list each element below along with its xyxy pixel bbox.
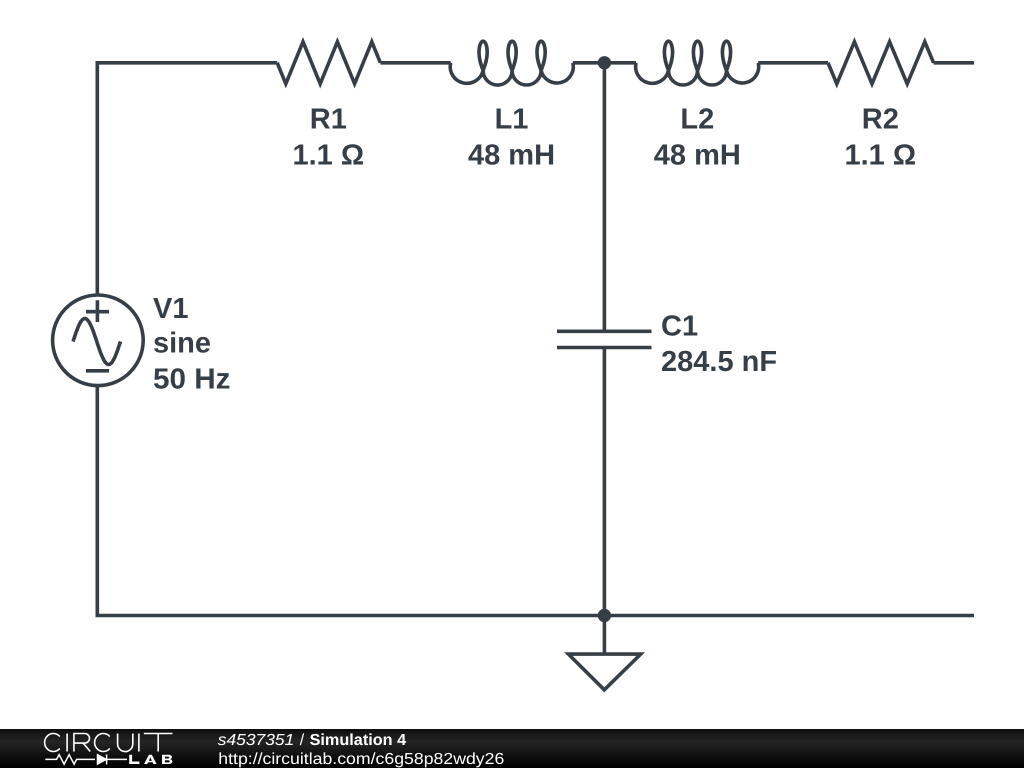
ground symbol — [568, 654, 640, 690]
resistor R1 — [277, 42, 380, 84]
voltage source V1 circle — [53, 295, 144, 386]
svg-text:1.1 Ω: 1.1 Ω — [292, 139, 364, 171]
capacitor C1 top plate — [557, 329, 652, 333]
svg-text:L1: L1 — [495, 103, 529, 135]
CircuitLab logo letter C — [95, 734, 110, 752]
wire bottom node to ground — [603, 616, 607, 654]
svg-text:L2: L2 — [680, 103, 714, 135]
CircuitLab logo resistor zigzag — [45, 755, 95, 765]
wire C1 to bottom node — [603, 348, 607, 616]
svg-text:V1: V1 — [153, 293, 188, 325]
svg-text:R2: R2 — [862, 103, 899, 135]
V1 minus sign — [86, 369, 109, 373]
inductor L1 — [450, 41, 573, 85]
wire R2 to right end — [934, 61, 974, 65]
V1 sine glyph — [73, 319, 121, 365]
svg-text:48 mH: 48 mH — [654, 139, 741, 171]
CircuitLab logo letter U — [118, 734, 133, 752]
V1 plus sign — [86, 300, 109, 322]
resistor R2 — [828, 42, 934, 84]
svg-text:Simulation 4: Simulation 4 — [310, 732, 407, 749]
wire left vertical to V1 — [96, 61, 100, 295]
wire node A to L2 — [604, 61, 636, 65]
CircuitLab logo letter I — [138, 734, 140, 752]
bottom node junction dot — [598, 609, 611, 622]
CircuitLab logo LAB text — [129, 755, 172, 764]
CircuitLab logo diode — [98, 755, 107, 764]
svg-text:C1: C1 — [661, 310, 698, 342]
wire L1 to node A — [573, 61, 605, 65]
svg-text:R1: R1 — [310, 103, 347, 135]
wire center vertical node A to C1 — [603, 63, 607, 332]
wire V1 to bottom-left corner — [96, 386, 100, 616]
wire R1 to L1 — [380, 61, 450, 65]
capacitor C1 bottom plate — [557, 346, 652, 350]
svg-text:/: / — [300, 732, 305, 749]
CircuitLab logo letter I — [66, 734, 68, 752]
wire L2 to R2 — [758, 61, 828, 65]
footer bar background — [0, 729, 1024, 768]
wire bottom horizontal — [96, 614, 975, 618]
CircuitLab logo letter C — [45, 734, 173, 752]
svg-text:48 mH: 48 mH — [468, 139, 555, 171]
svg-text:1.1 Ω: 1.1 Ω — [844, 139, 916, 171]
CircuitLab logo letter T — [144, 734, 173, 752]
svg-text:sine: sine — [153, 328, 211, 360]
node A junction dot — [598, 56, 611, 69]
wire top-left horizontal — [97, 61, 277, 65]
svg-text:http://circuitlab.com/c6g58p82: http://circuitlab.com/c6g58p82wdy26 — [218, 751, 504, 768]
svg-text:50 Hz: 50 Hz — [153, 363, 231, 395]
CircuitLab logo letter R — [74, 734, 90, 752]
inductor L2 — [636, 41, 759, 85]
svg-text:s4537351: s4537351 — [218, 732, 294, 749]
svg-text:284.5 nF: 284.5 nF — [661, 346, 777, 378]
